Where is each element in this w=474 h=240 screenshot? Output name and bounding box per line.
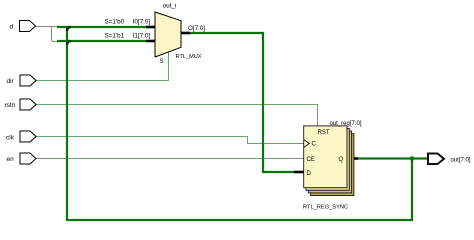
- svg-text:S=1'b1: S=1'b1: [105, 33, 125, 40]
- wire bus Q output of register to out port: [357, 157, 427, 159]
- svg-text:RTL_MUX: RTL_MUX: [176, 54, 202, 60]
- port dir symbol: [20, 75, 36, 86]
- wire rstn net to register RST: [36, 105, 318, 129]
- svg-text:I0[7:0]: I0[7:0]: [133, 19, 151, 26]
- wire bus I1 input of mux: [57, 40, 146, 42]
- wire en net to register CE: [36, 158, 295, 160]
- wire d fan-out branch to I1 bus: [50, 27, 58, 42]
- svg-text:S=1'b0: S=1'b0: [105, 19, 125, 26]
- svg-text:O[7:0]: O[7:0]: [188, 25, 205, 32]
- svg-text:d: d: [10, 24, 14, 31]
- port en symbol: [20, 153, 36, 164]
- svg-text:clk: clk: [6, 135, 15, 142]
- wire d net thin from port d: [36, 26, 59, 28]
- wire clk net to register C: [36, 137, 294, 144]
- svg-text:out_reg[7:0]: out_reg[7:0]: [330, 121, 362, 127]
- port d symbol: [20, 21, 36, 32]
- port rstn symbol: [20, 99, 36, 110]
- wire bus O output of mux to register D: [189, 33, 294, 172]
- junction dot on Q net: [410, 156, 415, 161]
- pin stub I1 black: [146, 40, 155, 43]
- svg-text:out[7:0]: out[7:0]: [451, 158, 471, 164]
- pin stub C gray: [294, 143, 304, 145]
- svg-text:out_i: out_i: [163, 3, 177, 10]
- register out_reg RTL_REG_SYNC stacked sheets: [304, 126, 354, 196]
- wire dir net to mux select S: [36, 52, 169, 81]
- clock triangle at C pin: [304, 140, 310, 148]
- pin stub I0 black: [146, 26, 155, 29]
- svg-text:S: S: [160, 59, 164, 65]
- svg-text:RST: RST: [318, 130, 330, 136]
- svg-text:rstn: rstn: [5, 102, 16, 109]
- pin stub O black: [181, 32, 190, 35]
- svg-text:I1[7:0]: I1[7:0]: [133, 33, 151, 40]
- svg-text:D: D: [307, 171, 312, 177]
- pin stub RST gray: [317, 122, 319, 128]
- bend dark corner into I1: [67, 41, 71, 45]
- svg-text:C: C: [312, 142, 317, 148]
- wire bus I0 input of mux: [57, 26, 146, 28]
- svg-text:RTL_REG_SYNC: RTL_REG_SYNC: [303, 205, 348, 211]
- port clk symbol: [20, 131, 36, 142]
- svg-text:Q: Q: [339, 157, 344, 163]
- pin stub CE gray: [295, 158, 304, 160]
- svg-text:CE: CE: [307, 157, 315, 163]
- op: mux out_i RTL_MUX body: [155, 12, 181, 57]
- svg-text:dir: dir: [7, 78, 15, 85]
- svg-text:en: en: [7, 156, 15, 163]
- pin stub Q black: [347, 157, 358, 160]
- wire feedback bus from Q to mux inputs: [67, 27, 412, 220]
- bend dark corner into I0: [67, 27, 71, 31]
- pin stub D black: [294, 171, 304, 174]
- port out symbol: [428, 154, 444, 165]
- pin stub S gray: [168, 52, 170, 57]
